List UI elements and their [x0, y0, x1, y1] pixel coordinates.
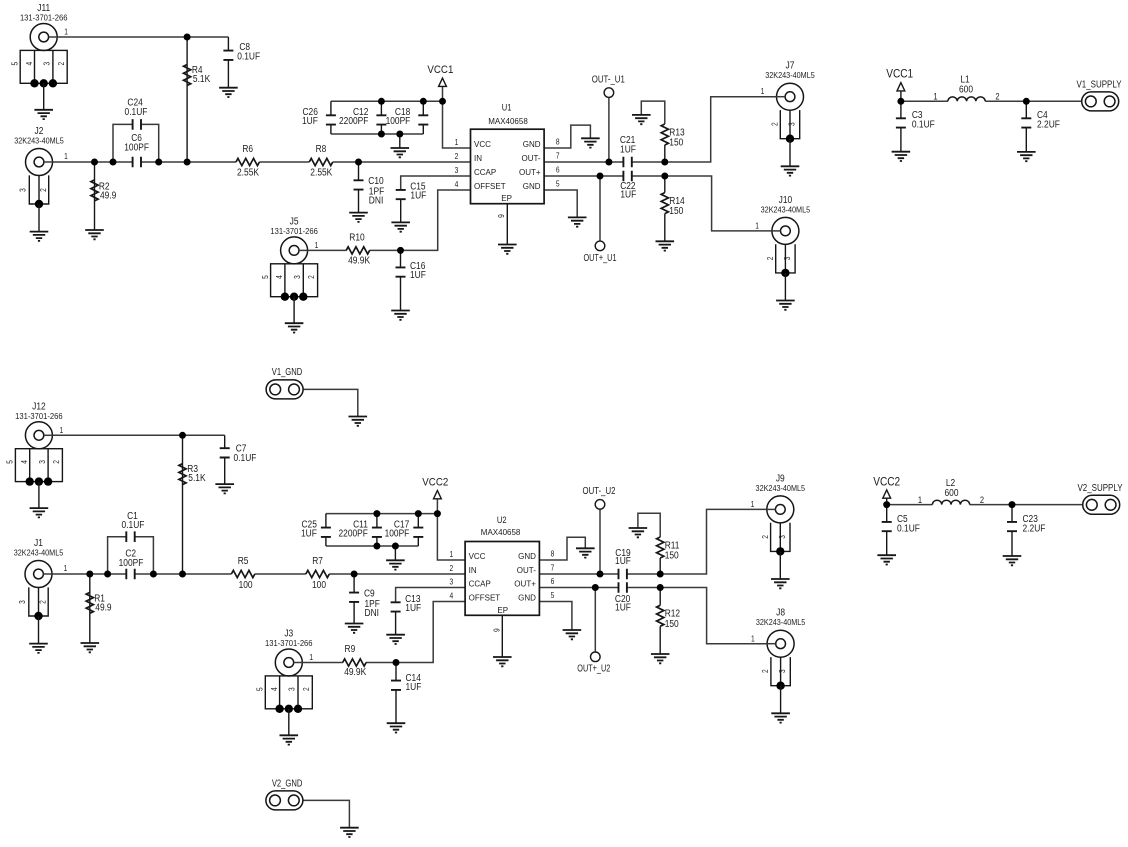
- ground R13 top: [632, 115, 651, 124]
- capacitor C7 0.1UF: [220, 448, 230, 457]
- svg-text:1: 1: [309, 653, 313, 662]
- svg-text:5.1K: 5.1K: [188, 473, 206, 484]
- ground bypass: [391, 148, 410, 157]
- resistor R2 49.9: [91, 180, 98, 201]
- main input line J2 to U1 pin2: [53, 161, 133, 163]
- svg-text:150: 150: [665, 619, 679, 630]
- svg-text:32K243-40ML5: 32K243-40ML5: [765, 71, 815, 80]
- svg-text:2: 2: [302, 687, 311, 691]
- bypass cap stub wires ch2 at x=418.3: [417, 514, 419, 528]
- svg-text:6: 6: [551, 577, 555, 586]
- OUT- test point drop: [608, 97, 610, 162]
- svg-text:3: 3: [288, 687, 297, 691]
- OUT-_U1 test point: [604, 88, 614, 98]
- svg-text:6: 6: [556, 166, 560, 175]
- ground C14: [387, 723, 406, 732]
- svg-text:3: 3: [293, 275, 302, 279]
- junction R3/J12 line: [179, 432, 186, 439]
- bypass capacitor C17 100PF: [413, 528, 423, 537]
- svg-text:150: 150: [669, 138, 683, 149]
- svg-text:J7: J7: [786, 61, 795, 72]
- svg-text:VCC: VCC: [474, 140, 491, 149]
- svg-text:3: 3: [43, 61, 52, 65]
- svg-text:32K243-40ML5: 32K243-40ML5: [761, 205, 811, 214]
- svg-text:C9: C9: [364, 589, 375, 600]
- svg-text:1UF: 1UF: [302, 116, 318, 127]
- wire VCC2 to V2_SUPPLY: [886, 498, 888, 504]
- junction R9/C14/OFFSET: [393, 659, 400, 666]
- pin5 GND wire: [544, 190, 577, 217]
- svg-text:3: 3: [455, 166, 459, 175]
- svg-text:OUT+_U1: OUT+_U1: [584, 253, 617, 264]
- junction R4/J11 line: [184, 34, 191, 41]
- svg-text:2: 2: [771, 122, 780, 126]
- svg-text:32K243-40ML5: 32K243-40ML5: [756, 484, 806, 493]
- svg-text:MAX40658: MAX40658: [488, 117, 528, 126]
- svg-text:U2: U2: [497, 515, 507, 525]
- J3 line with R9: [302, 662, 343, 664]
- svg-text:OFFSET: OFFSET: [469, 594, 501, 603]
- svg-text:7: 7: [551, 564, 555, 573]
- svg-text:1: 1: [918, 495, 922, 505]
- capacitor C19 1UF: [619, 569, 627, 580]
- svg-text:3: 3: [778, 669, 787, 673]
- resistor R6 2.55K: [236, 158, 259, 165]
- capacitor C10 1PF DNI: [354, 180, 364, 189]
- svg-text:J1: J1: [34, 538, 43, 549]
- svg-text:1UF: 1UF: [620, 144, 636, 155]
- svg-text:32K243-40ML5: 32K243-40ML5: [14, 137, 64, 146]
- pin7 OUT- wire ch2: [539, 573, 618, 575]
- svg-text:2: 2: [761, 669, 770, 673]
- junction main line ch2 x=354.1: [351, 571, 358, 578]
- ground C5: [877, 555, 896, 564]
- R2 to ground: [94, 162, 96, 230]
- svg-text:0.1UF: 0.1UF: [897, 524, 920, 535]
- bypass ground drop ch2: [394, 546, 396, 560]
- junction R11/OUT-: [657, 571, 664, 578]
- svg-text:5: 5: [556, 180, 560, 189]
- svg-text:2.2UF: 2.2UF: [1023, 524, 1046, 535]
- ground C4: [1017, 152, 1036, 161]
- bypass cap stub wires at x=381.4: [380, 101, 382, 115]
- svg-text:V1_GND: V1_GND: [272, 367, 303, 378]
- ground bypass ch2: [386, 560, 405, 569]
- svg-text:R8: R8: [316, 144, 327, 155]
- svg-text:2.55K: 2.55K: [237, 167, 259, 178]
- resistor R14 150: [661, 193, 668, 214]
- svg-text:1: 1: [751, 500, 755, 509]
- dots VCC1 block: [897, 98, 904, 105]
- OUT+ test point drop: [599, 176, 601, 241]
- svg-text:100PF: 100PF: [124, 143, 149, 154]
- svg-text:R5: R5: [238, 556, 249, 567]
- svg-text:1: 1: [755, 222, 759, 231]
- svg-text:CCAP: CCAP: [469, 580, 491, 589]
- svg-text:1UF: 1UF: [615, 603, 631, 614]
- svg-text:3: 3: [449, 578, 453, 587]
- junction main line ch2 x=182.5: [179, 571, 186, 578]
- ground C23: [1003, 556, 1022, 565]
- bypass capacitor C12 2200PF: [376, 115, 386, 124]
- svg-text:1: 1: [64, 152, 68, 161]
- svg-text:100PF: 100PF: [119, 558, 144, 569]
- svg-text:2: 2: [455, 152, 459, 161]
- svg-text:V1_SUPPLY: V1_SUPPLY: [1077, 80, 1122, 91]
- svg-text:49.9: 49.9: [95, 603, 112, 614]
- R1 to ground: [89, 574, 91, 643]
- svg-text:100PF: 100PF: [385, 528, 410, 539]
- resistor R1 49.9: [86, 592, 93, 613]
- junction VCC1 rail: [439, 98, 446, 105]
- J5 line with R10: [308, 249, 347, 251]
- pin8 GND wire: [544, 125, 590, 148]
- svg-text:49.9K: 49.9K: [348, 256, 370, 267]
- svg-text:131-3701-266: 131-3701-266: [20, 14, 68, 23]
- wire VCC1 to V1_SUPPLY: [900, 91, 902, 101]
- svg-text:OUT-_U1: OUT-_U1: [592, 75, 625, 86]
- junction bypass gnd rail: [396, 131, 403, 138]
- svg-text:2200PF: 2200PF: [339, 116, 368, 127]
- svg-text:OUT+: OUT+: [519, 168, 541, 177]
- svg-text:VCC1: VCC1: [886, 67, 913, 81]
- resistor R11 150: [657, 537, 664, 558]
- capacitor C6 100PF: [133, 157, 141, 168]
- svg-text:150: 150: [665, 551, 679, 562]
- svg-text:J9: J9: [776, 473, 785, 484]
- inductor L1 600: [948, 97, 985, 101]
- bypass cap stub wires ch2 at x=325.9: [325, 514, 327, 528]
- C9 branch: [353, 574, 355, 593]
- svg-text:R6: R6: [242, 144, 253, 155]
- junction C12 top rail: [378, 98, 385, 105]
- resistor R3 5.1K: [179, 464, 186, 485]
- svg-text:3: 3: [38, 460, 47, 464]
- svg-text:3: 3: [19, 188, 28, 192]
- svg-text:2.55K: 2.55K: [310, 167, 332, 178]
- svg-text:OUT+: OUT+: [514, 580, 536, 589]
- connector J12 131-3701-266: [6, 402, 64, 518]
- resistor R12 150: [657, 605, 664, 626]
- bypass cap stub wires ch2 at x=376.9: [376, 514, 378, 528]
- capacitor C2 100PF: [126, 569, 134, 580]
- OUT-_U2 test point: [595, 500, 605, 510]
- ground C8: [219, 88, 238, 97]
- svg-text:2200PF: 2200PF: [339, 528, 368, 539]
- capacitor C14 1UF: [391, 681, 401, 690]
- junction R12/OUT+: [657, 584, 664, 591]
- junction main line x=187.1: [184, 159, 191, 166]
- resistor R10 49.9K: [346, 247, 369, 254]
- V1_GND terminal block: [303, 389, 358, 416]
- connector J3 131-3701-266: [256, 629, 314, 745]
- ground C7: [215, 484, 234, 493]
- junction OUT+ node ch2: [592, 584, 599, 591]
- ground R2: [85, 230, 104, 239]
- wire J12 pin1 to C7 corner: [52, 434, 224, 436]
- OUT- test point drop ch2: [599, 509, 601, 574]
- wire C8 to ground: [227, 60, 229, 88]
- svg-text:100PF: 100PF: [386, 116, 411, 127]
- junction main line x=94.5: [91, 159, 98, 166]
- bypass capacitor C11 2200PF: [372, 528, 382, 537]
- resistor R13 150: [661, 124, 668, 145]
- svg-text:EP: EP: [497, 606, 508, 615]
- ground R11 top: [629, 528, 648, 537]
- capacitor C13 1UF: [391, 602, 401, 611]
- svg-text:1: 1: [449, 550, 453, 559]
- bypass top rail: [331, 100, 443, 102]
- svg-text:1: 1: [933, 92, 937, 102]
- junction R10/C16/OFFSET: [397, 247, 404, 254]
- svg-text:OUT-: OUT-: [522, 154, 541, 163]
- svg-text:J8: J8: [776, 608, 785, 619]
- wire R4 vertical: [186, 37, 188, 162]
- capacitor C3 0.1UF: [900, 101, 902, 118]
- V2_GND terminal block: [303, 800, 350, 827]
- connector J7 32K243-40ML5: [765, 61, 815, 176]
- svg-text:2: 2: [766, 256, 775, 260]
- svg-text:VCC: VCC: [469, 552, 486, 561]
- capacitor C16 1UF: [396, 267, 406, 276]
- svg-text:0.1UF: 0.1UF: [122, 520, 145, 531]
- svg-text:GND: GND: [518, 552, 536, 561]
- svg-text:8: 8: [551, 550, 555, 559]
- svg-text:4: 4: [449, 592, 453, 601]
- svg-text:49.9: 49.9: [100, 191, 117, 202]
- op amp U1 MAX40658 box: [471, 129, 545, 204]
- svg-text:GND: GND: [523, 182, 541, 191]
- svg-text:GND: GND: [518, 594, 536, 603]
- svg-text:3: 3: [783, 256, 792, 260]
- bypass capacitor C25 1UF: [321, 528, 331, 537]
- junction main line x=358.5: [355, 159, 362, 166]
- wire C7 top stub: [224, 435, 226, 448]
- svg-text:1UF: 1UF: [410, 191, 426, 202]
- svg-text:3: 3: [18, 600, 27, 604]
- svg-text:OUT-: OUT-: [517, 566, 536, 575]
- R11 resistor upper wire to ground ch2: [659, 558, 661, 574]
- capacitor C15 1UF: [396, 190, 406, 199]
- junction C11 bottom rail: [373, 543, 380, 550]
- svg-text:32K243-40ML5: 32K243-40ML5: [756, 618, 806, 627]
- ground R14: [656, 241, 675, 250]
- svg-text:1: 1: [59, 426, 63, 435]
- junction main line ch2 x=107.6: [104, 571, 111, 578]
- junction main line x=158.7: [155, 159, 162, 166]
- svg-text:5.1K: 5.1K: [193, 74, 211, 85]
- junction R13/OUT-: [661, 159, 668, 166]
- svg-text:4: 4: [455, 180, 459, 189]
- ground pin8: [581, 138, 600, 147]
- svg-text:R10: R10: [349, 233, 365, 244]
- svg-text:5: 5: [11, 61, 20, 65]
- ground R12: [651, 654, 670, 663]
- wire R3 vertical: [182, 435, 184, 574]
- svg-text:5: 5: [551, 591, 555, 600]
- svg-text:CCAP: CCAP: [474, 168, 496, 177]
- svg-text:OUT-_U2: OUT-_U2: [583, 486, 616, 497]
- svg-text:1: 1: [751, 634, 755, 643]
- svg-text:2: 2: [995, 92, 999, 102]
- bypass bottom rail: [331, 133, 423, 135]
- svg-text:J11: J11: [37, 3, 50, 14]
- svg-text:4: 4: [20, 460, 29, 464]
- svg-text:4: 4: [275, 275, 284, 279]
- ground C13: [386, 635, 405, 644]
- svg-text:5: 5: [261, 275, 270, 279]
- bypass cap stub wires at x=423.3: [422, 101, 424, 115]
- svg-text:0.1UF: 0.1UF: [912, 120, 935, 131]
- capacitor C20 1UF: [619, 582, 627, 593]
- svg-text:OUT+_U2: OUT+_U2: [577, 664, 610, 675]
- svg-text:J10: J10: [779, 195, 793, 206]
- wire J11 pin1 to C8 corner: [57, 36, 228, 38]
- svg-text:0.1UF: 0.1UF: [237, 52, 260, 63]
- ground C9: [345, 624, 364, 633]
- resistor R7 100: [306, 570, 329, 577]
- svg-text:131-3701-266: 131-3701-266: [15, 412, 63, 421]
- capacitor C22 1UF: [623, 171, 631, 182]
- junction OUT- node ch2: [597, 571, 604, 578]
- svg-text:DNI: DNI: [365, 608, 380, 619]
- svg-text:J2: J2: [35, 126, 44, 137]
- svg-text:32K243-40ML5: 32K243-40ML5: [14, 549, 64, 558]
- svg-text:0.1UF: 0.1UF: [234, 453, 257, 464]
- inductor L2 600: [932, 500, 969, 504]
- C1 loop: [108, 537, 127, 574]
- ground C10: [349, 213, 368, 222]
- svg-text:VCC2: VCC2: [873, 475, 900, 489]
- svg-text:2: 2: [57, 61, 66, 65]
- EP pin9 wire: [506, 204, 508, 245]
- junction C12 bottom rail: [378, 131, 385, 138]
- OUT+ test point drop ch2: [594, 588, 596, 653]
- svg-text:1: 1: [64, 564, 68, 573]
- capacitor C24 0.1UF: [133, 119, 141, 130]
- svg-text:1: 1: [64, 28, 68, 37]
- svg-text:49.9K: 49.9K: [344, 667, 366, 678]
- svg-text:1: 1: [761, 87, 765, 96]
- svg-text:0.1UF: 0.1UF: [125, 107, 148, 118]
- junction R14/OUT+: [661, 173, 668, 180]
- capacitor C23 2.2UF: [1011, 505, 1013, 522]
- junction OUT+ node: [597, 173, 604, 180]
- svg-text:2: 2: [307, 275, 316, 279]
- ground C16: [391, 311, 410, 320]
- svg-text:IN: IN: [474, 154, 482, 163]
- svg-text:J5: J5: [290, 217, 299, 228]
- svg-text:9: 9: [493, 628, 502, 632]
- ground EP: [498, 245, 517, 254]
- svg-text:2: 2: [449, 564, 453, 573]
- svg-text:C10: C10: [368, 176, 384, 187]
- svg-text:100: 100: [312, 580, 326, 591]
- C24 loop: [113, 124, 133, 162]
- junction main line ch2 x=153.4: [150, 571, 157, 578]
- svg-text:2: 2: [39, 600, 48, 604]
- svg-text:3: 3: [788, 122, 797, 126]
- ground pin5 ch2: [563, 630, 582, 639]
- svg-text:1UF: 1UF: [406, 682, 422, 693]
- VCC1 power symbol right: [897, 83, 905, 91]
- junction C17 top rail: [415, 510, 422, 517]
- C14 branch: [395, 663, 397, 681]
- capacitor C9 1PF DNI: [349, 593, 359, 602]
- C16 branch: [400, 250, 402, 267]
- svg-text:J12: J12: [32, 402, 46, 413]
- VCC2 stem and pin1 wire: [437, 499, 465, 560]
- pin3 wire to C13: [396, 588, 466, 603]
- svg-text:V2_GND: V2_GND: [272, 779, 303, 790]
- ground V2_GND: [340, 828, 359, 837]
- junction main line x=113.0: [110, 159, 117, 166]
- junction C11 top rail: [373, 510, 380, 517]
- svg-text:1UF: 1UF: [620, 190, 636, 201]
- wire C8 top stub: [227, 37, 229, 51]
- pin6 OUT+ wire: [544, 175, 623, 177]
- svg-text:VCC2: VCC2: [422, 476, 448, 488]
- junction C18 top rail: [420, 98, 427, 105]
- junction bypass gnd rail ch2: [392, 543, 399, 550]
- svg-text:EP: EP: [501, 194, 512, 203]
- dots VCC2 block: [883, 501, 890, 508]
- ground R1: [81, 643, 100, 652]
- svg-text:131-3701-266: 131-3701-266: [270, 227, 318, 236]
- R13 resistor upper wire to ground: [664, 145, 666, 162]
- ground V1_GND: [349, 417, 368, 426]
- svg-text:1UF: 1UF: [410, 270, 426, 281]
- VCC2 power symbol right: [883, 490, 891, 498]
- svg-text:2: 2: [52, 460, 61, 464]
- resistor R5 100: [231, 570, 254, 577]
- svg-text:131-3701-266: 131-3701-266: [265, 639, 313, 648]
- junction main line ch2 x=89.8: [86, 571, 93, 578]
- VCC1 stem and pin1 wire: [443, 86, 471, 148]
- wire C7 to ground: [224, 458, 226, 485]
- svg-text:600: 600: [945, 488, 959, 499]
- svg-text:DNI: DNI: [369, 195, 384, 206]
- capacitor C1 0.1UF: [126, 531, 134, 542]
- junction OUT- node: [605, 159, 612, 166]
- resistor R4 5.1K: [184, 65, 191, 86]
- bypass bottom rail ch2: [326, 545, 418, 547]
- VCC1 power symbol mid: [439, 78, 447, 86]
- pin8 GND wire ch2: [539, 537, 585, 560]
- bypass cap stub wires at x=330.9: [330, 101, 332, 115]
- capacitor C21 1UF: [623, 157, 631, 168]
- pin3 wire to C15: [401, 176, 471, 190]
- svg-text:U1: U1: [502, 102, 512, 112]
- capacitor C8 0.1UF: [223, 51, 233, 60]
- svg-text:MAX40658: MAX40658: [481, 528, 521, 537]
- ground pin8 ch2: [576, 548, 595, 557]
- svg-text:J3: J3: [284, 629, 293, 640]
- connector J11 131-3701-266: [11, 3, 69, 119]
- svg-text:R7: R7: [312, 556, 323, 567]
- connector J1 32K243-40ML5: [14, 538, 68, 653]
- capacitor C5 0.1UF: [886, 505, 888, 522]
- ground C3: [892, 152, 911, 161]
- svg-text:R9: R9: [345, 644, 356, 655]
- pin4 OFFSET wire ch2: [396, 602, 465, 663]
- R12 lower wire: [659, 588, 661, 606]
- pin7 OUT- wire: [544, 161, 623, 163]
- junction VCC2 rail: [434, 510, 441, 517]
- svg-text:GND: GND: [523, 140, 541, 149]
- ground C15: [391, 222, 410, 231]
- svg-text:3: 3: [778, 535, 787, 539]
